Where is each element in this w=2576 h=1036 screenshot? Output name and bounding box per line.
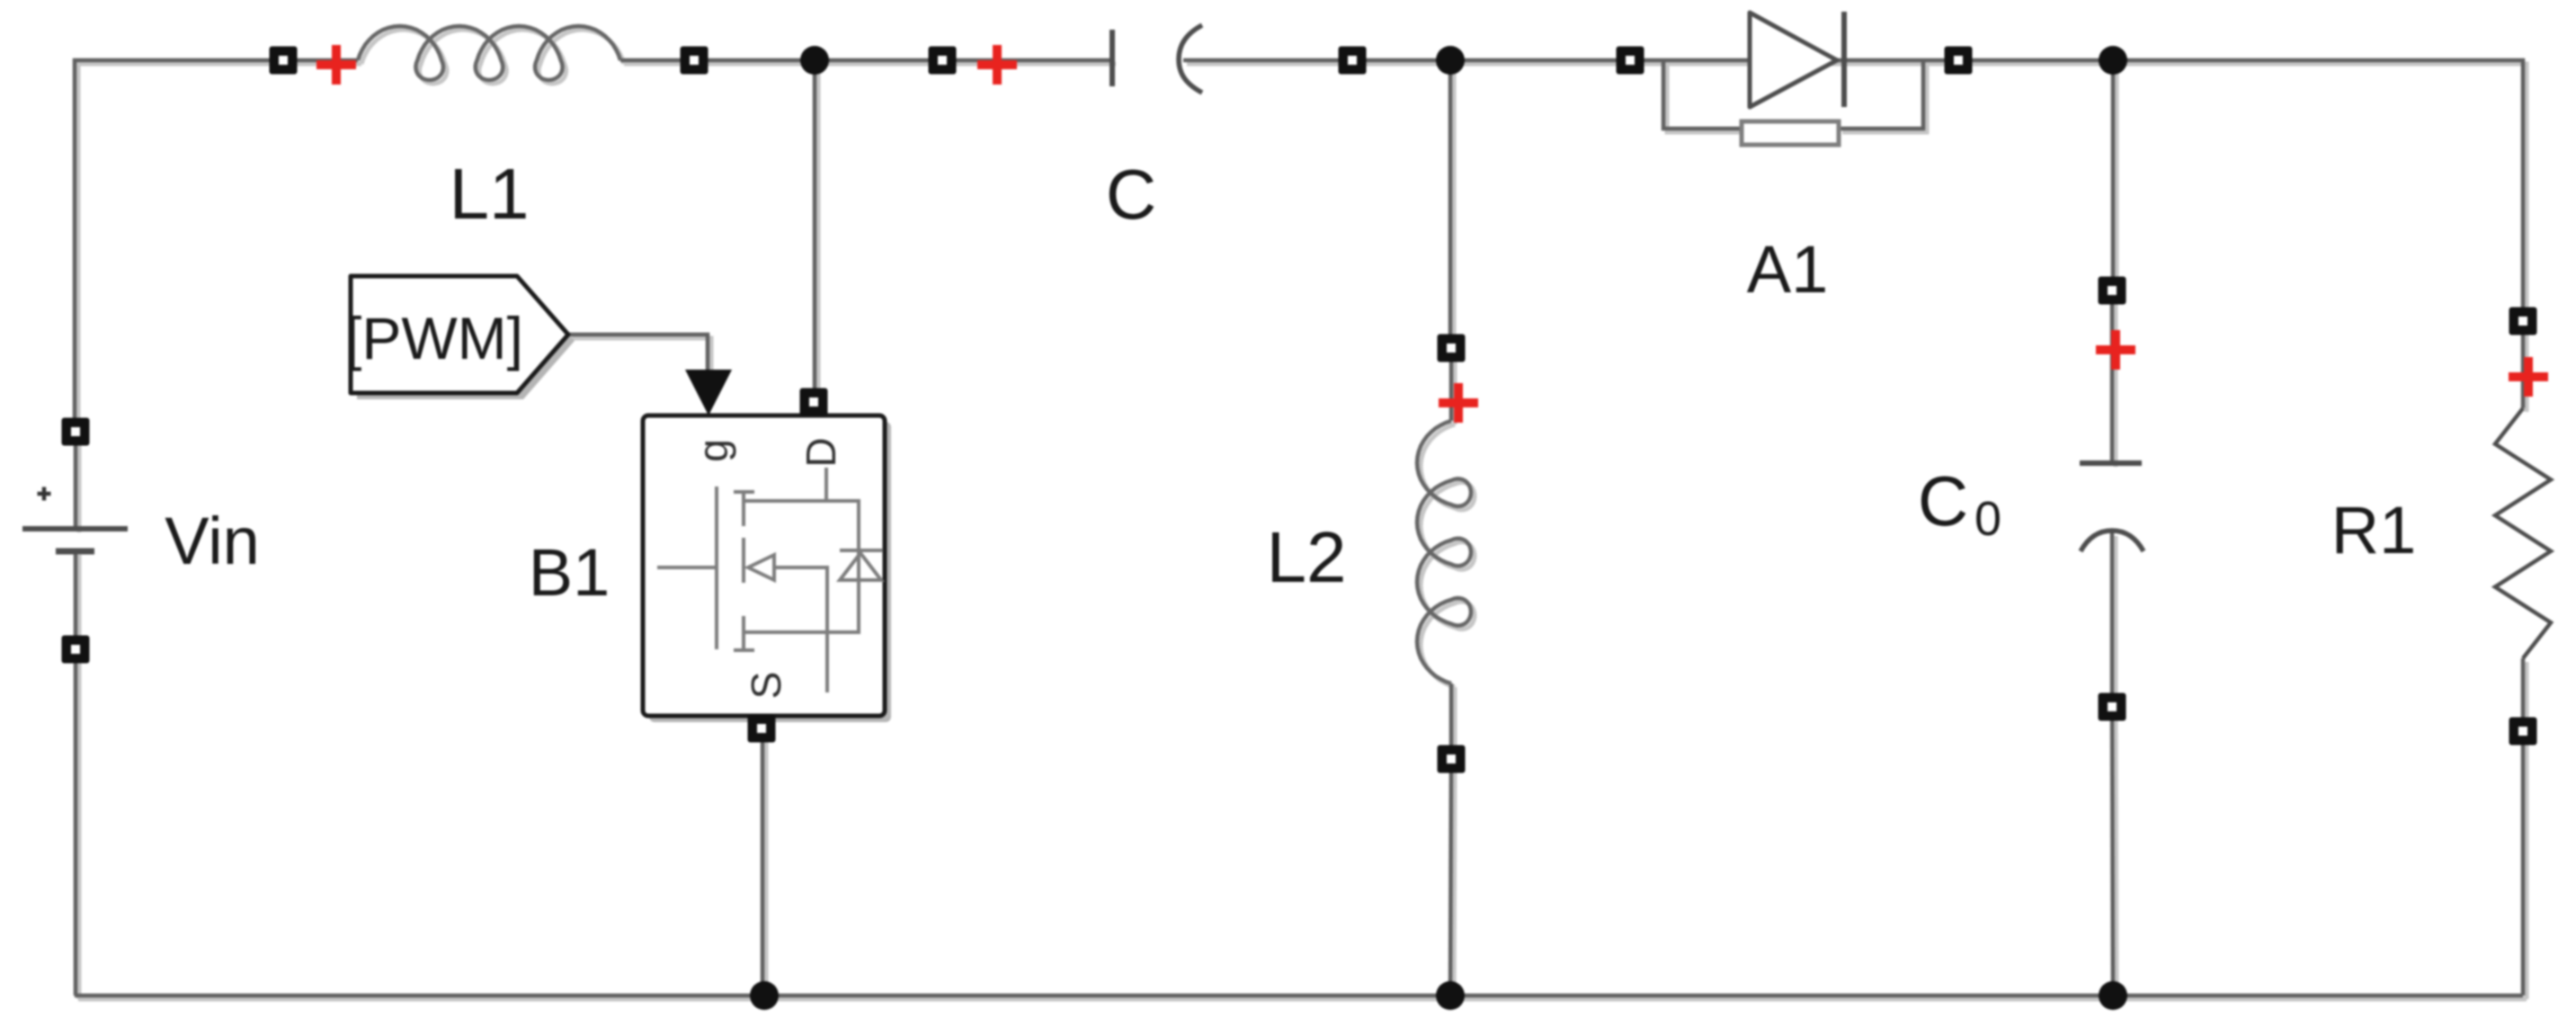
svg-text:A1: A1 bbox=[1747, 232, 1829, 307]
svg-text:L2: L2 bbox=[1267, 517, 1347, 597]
svg-text:L1: L1 bbox=[450, 154, 530, 234]
svg-text:C: C bbox=[1106, 155, 1156, 234]
svg-text:B1: B1 bbox=[529, 535, 611, 610]
svg-text:g: g bbox=[690, 439, 736, 462]
svg-text:C: C bbox=[1918, 461, 1968, 540]
svg-text:D: D bbox=[798, 437, 844, 467]
svg-text:R1: R1 bbox=[2331, 493, 2417, 567]
svg-text:S: S bbox=[743, 672, 789, 700]
svg-text:0: 0 bbox=[1974, 492, 2001, 546]
svg-text:[PWM]: [PWM] bbox=[345, 305, 523, 371]
svg-text:Vin: Vin bbox=[165, 504, 260, 578]
